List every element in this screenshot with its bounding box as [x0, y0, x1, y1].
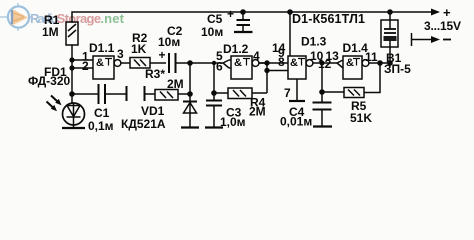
svg-text:C5: C5: [207, 12, 223, 26]
wire top +V rail: [72, 12, 434, 22]
svg-text:D1.2: D1.2: [223, 42, 249, 56]
power plus arrow: [431, 5, 451, 20]
gate D1.3: [259, 9, 337, 101]
svg-text:8: 8: [278, 55, 285, 69]
svg-text:10м: 10м: [158, 35, 180, 49]
ground bar C5: [234, 31, 253, 33]
ground bar FD1: [62, 127, 85, 129]
svg-text:ФД-320: ФД-320: [28, 74, 71, 88]
svg-text:7: 7: [284, 86, 291, 100]
svg-text:3...15V: 3...15V: [424, 19, 461, 33]
svg-text:+: +: [443, 5, 451, 20]
svg-text:&: &: [96, 57, 104, 69]
resistor R4 feedback: [214, 71, 267, 99]
ground bar pin 7: [289, 100, 305, 102]
ground bar C4: [313, 125, 332, 127]
node C2/D1.2/R3 riser: [187, 60, 223, 94]
svg-text:1K: 1K: [131, 42, 147, 56]
resistor R1: [66, 22, 78, 45]
svg-text:&: &: [346, 57, 354, 69]
svg-text:3: 3: [117, 47, 124, 61]
capacitor C1: [72, 84, 127, 104]
svg-text:ЗП-5: ЗП-5: [384, 62, 411, 76]
svg-text:КД521А: КД521А: [121, 117, 166, 131]
svg-text:C1: C1: [94, 106, 110, 120]
capacitor C2: [169, 53, 190, 73]
power minus terminal: [412, 33, 452, 46]
svg-text:10м: 10м: [201, 25, 223, 39]
svg-text:12: 12: [318, 57, 332, 71]
svg-text:6: 6: [216, 60, 223, 74]
svg-text:VD1: VD1: [141, 104, 165, 118]
svg-text:+: +: [159, 48, 166, 62]
photodiode FD1: [47, 96, 86, 129]
capacitor C5: [234, 9, 253, 32]
watermark logo RadioStorage.net: [0, 3, 125, 31]
wire R1 to input node: [71, 45, 73, 104]
node junction R1/FD1/C1/D1.1: [69, 57, 75, 96]
svg-text:&: &: [290, 57, 298, 69]
node R3/VD1: [187, 91, 193, 97]
resistor R5: [322, 60, 383, 97]
svg-text:11: 11: [365, 50, 378, 64]
resistor R3: [145, 86, 191, 101]
svg-text:&: &: [234, 57, 242, 69]
svg-text:0,01м: 0,01м: [280, 115, 312, 129]
svg-text:D1.1: D1.1: [89, 41, 115, 55]
svg-text:2M: 2M: [249, 105, 266, 119]
gate D1.2: [223, 56, 267, 79]
ground bar C3: [205, 126, 223, 128]
svg-text:D1.3: D1.3: [301, 35, 327, 49]
svg-text:D1-К561ТЛ1: D1-К561ТЛ1: [292, 12, 365, 26]
capacitor C3: [205, 90, 223, 127]
svg-text:+: +: [227, 7, 234, 21]
gate D1.4: [320, 56, 391, 79]
diode VD1: [181, 94, 199, 128]
svg-text:2M: 2M: [167, 77, 184, 91]
gate D1.1: [72, 56, 130, 79]
svg-text:0,1м: 0,1м: [88, 119, 114, 133]
svg-text:2: 2: [82, 59, 89, 73]
ground bar VD1: [181, 126, 199, 128]
svg-text:51K: 51K: [350, 111, 372, 125]
svg-text:1M: 1M: [42, 25, 59, 39]
svg-text:1,0м: 1,0м: [220, 115, 246, 129]
piezo buzzer B1: [381, 9, 398, 66]
svg-text:4: 4: [253, 49, 260, 63]
svg-text:R3*: R3*: [145, 67, 165, 81]
resistor R2: [130, 58, 166, 69]
capacitor C4: [313, 63, 333, 127]
